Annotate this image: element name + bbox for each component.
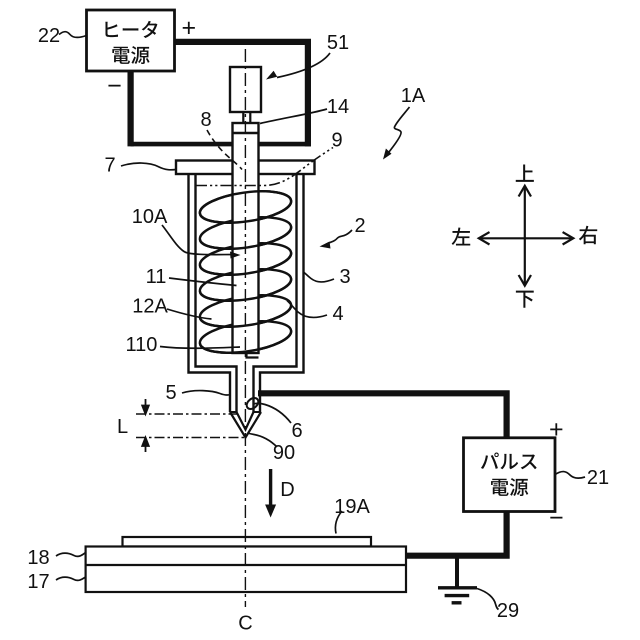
stage plate 19A	[123, 537, 372, 547]
leader for 110	[160, 347, 240, 349]
svg-text:8: 8	[200, 109, 211, 131]
stage layers 18 / 17	[86, 547, 406, 593]
svg-text:3: 3	[339, 266, 350, 288]
svg-text:4: 4	[332, 303, 343, 325]
leader for 22	[59, 32, 86, 38]
compass label: down	[516, 291, 534, 308]
svg-text:14: 14	[327, 96, 349, 118]
leader arrow for 10A	[162, 225, 235, 255]
leader for 12A	[167, 309, 212, 319]
dashed leader for 8	[207, 130, 242, 170]
svg-text:17: 17	[27, 571, 49, 593]
screw flight front arcs over shaft	[200, 191, 291, 352]
leader for 14	[260, 109, 327, 124]
svg-text:12A: 12A	[132, 296, 168, 318]
leader for 90	[248, 433, 278, 447]
leader for 21	[555, 472, 585, 479]
arrow D (deposition direction)	[269, 469, 272, 511]
leader for 11	[169, 278, 237, 286]
svg-text:22: 22	[38, 25, 60, 47]
neck between heater and shaft	[243, 112, 250, 123]
nozzle cone 90	[230, 412, 261, 438]
barrel 3 inner wall	[196, 174, 297, 412]
leader for 29	[477, 589, 499, 610]
wire: pulse supply to stage	[406, 512, 507, 556]
svg-text:6: 6	[291, 420, 302, 442]
svg-text:+: +	[181, 14, 196, 42]
liquid level line 9 (dash-dot-dot)	[196, 148, 333, 186]
svg-text:19A: 19A	[334, 496, 370, 518]
dimension L dash-dot lines	[136, 414, 246, 438]
svg-text:D: D	[280, 479, 294, 501]
wire: heater supply - lead (left vertical)	[127, 71, 133, 146]
svg-text:C: C	[238, 613, 252, 635]
svg-text:L: L	[117, 416, 128, 438]
svg-text:1A: 1A	[401, 85, 426, 107]
compass label: left	[452, 228, 471, 246]
svg-text:−: −	[549, 504, 564, 532]
leader for 5	[182, 391, 231, 395]
leader for 7	[121, 163, 176, 170]
screw flight 12A: helix turns	[198, 186, 293, 358]
leader for 3	[304, 273, 334, 282]
svg-text:110: 110	[126, 334, 158, 356]
svg-text:51: 51	[327, 32, 349, 54]
svg-text:5: 5	[165, 382, 176, 404]
svg-text:−: −	[107, 72, 122, 100]
leader for 6	[253, 403, 291, 423]
heater power supply box 22	[87, 10, 175, 71]
screw shaft 11	[233, 123, 259, 353]
svg-text:+: +	[549, 415, 564, 443]
wire: heater return lead (bottom, passes behind shaft)	[131, 142, 311, 147]
flange 7	[176, 161, 315, 175]
leader arrow for 51	[277, 53, 330, 78]
screw tip stub at shaft bottom	[247, 353, 259, 358]
svg-text:7: 7	[104, 155, 115, 177]
dimension L arrows	[142, 399, 149, 452]
text: power source	[112, 46, 149, 64]
text: power source	[491, 478, 528, 496]
leader for 4	[287, 301, 327, 318]
barrel 3 outer wall	[189, 174, 304, 412]
ground symbol 29	[438, 588, 477, 603]
shaft coupling 14 cap line	[233, 132, 259, 134]
wire: pulse circuit top (nozzle to pulse supply)	[258, 393, 507, 438]
svg-text:21: 21	[587, 467, 609, 489]
compass label: right	[579, 226, 597, 245]
wire: ground stem	[455, 556, 459, 588]
pulse power supply box 21	[464, 438, 556, 512]
wire: heater supply + lead (top and right)	[174, 42, 308, 146]
svg-text:18: 18	[27, 547, 49, 569]
leader for 17	[56, 577, 86, 580]
melt ellipse 6	[245, 396, 261, 411]
leader for 18	[56, 553, 86, 557]
svg-text:90: 90	[273, 442, 295, 464]
svg-text:11: 11	[146, 266, 167, 288]
svg-text:2: 2	[354, 215, 365, 237]
text: pulse	[481, 453, 537, 470]
svg-text:9: 9	[331, 130, 342, 152]
zigzag arrow 1A	[387, 107, 410, 155]
leader for 19A	[335, 511, 342, 534]
squiggle arrow 2	[325, 230, 352, 245]
centre line C (vertical dash-dot)	[244, 49, 246, 607]
text: heater (hiita)	[105, 21, 157, 38]
svg-text:29: 29	[497, 600, 519, 622]
compass label: up	[516, 165, 534, 182]
compass axes	[479, 186, 574, 286]
heater block 51	[230, 67, 261, 112]
svg-text:10A: 10A	[132, 206, 168, 228]
